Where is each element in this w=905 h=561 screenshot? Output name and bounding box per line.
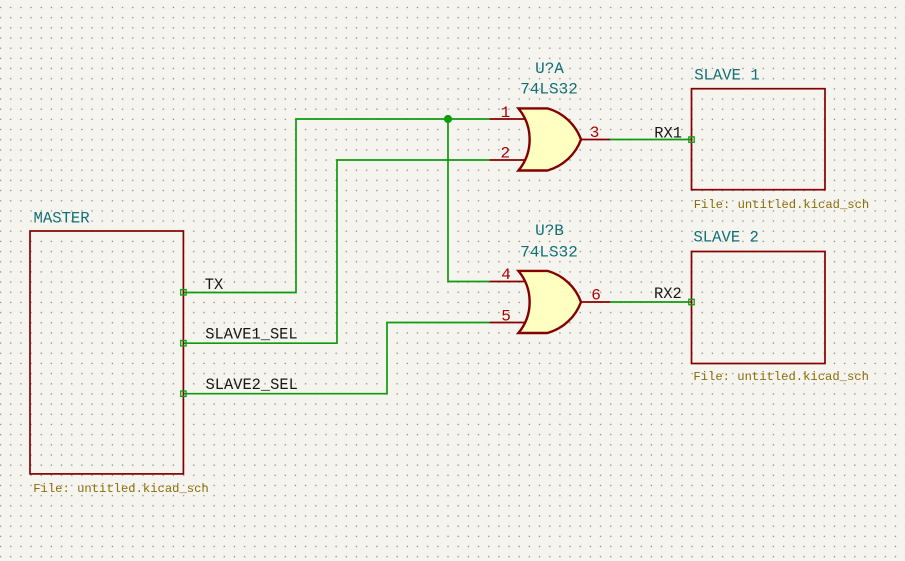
svg-text:SLAVE 2: SLAVE 2 bbox=[693, 229, 759, 247]
wire RX1 from U?A pin 3 to SLAVE 1 bbox=[610, 139, 692, 141]
svg-text:U?A: U?A bbox=[535, 60, 564, 78]
svg-text:TX: TX bbox=[205, 276, 223, 294]
wire TX from MASTER up to U?A pin 1 bbox=[183, 119, 489, 293]
pin 1 stub of U?A bbox=[490, 118, 526, 120]
pin 2 stub of U?A bbox=[490, 159, 526, 161]
svg-text:File: untitled.kicad_sch: File: untitled.kicad_sch bbox=[33, 482, 209, 496]
svg-text:3: 3 bbox=[590, 124, 600, 142]
svg-text:U?B: U?B bbox=[535, 222, 564, 240]
svg-text:2: 2 bbox=[500, 144, 510, 162]
svg-text:1: 1 bbox=[501, 104, 511, 122]
pin 5 stub of U?B bbox=[490, 322, 526, 324]
junction bbox=[444, 115, 452, 123]
pin 4 stub of U?B bbox=[490, 281, 526, 283]
svg-text:RX1: RX1 bbox=[654, 125, 682, 143]
sheet pin SLAVE2_SEL on MASTER bbox=[181, 391, 186, 396]
svg-text:File: untitled.kicad_sch: File: untitled.kicad_sch bbox=[694, 198, 870, 212]
wire branch from junction down to U?B pin 4 bbox=[448, 119, 490, 282]
svg-text:4: 4 bbox=[501, 266, 511, 284]
sheet pin SLAVE1_SEL on MASTER bbox=[181, 341, 186, 346]
sheet pin RX2 on SLAVE 2 bbox=[689, 299, 694, 304]
wire SLAVE2_SEL from MASTER to U?B pin 5 bbox=[183, 323, 489, 394]
svg-text:SLAVE2_SEL: SLAVE2_SEL bbox=[206, 376, 298, 394]
svg-text:RX2: RX2 bbox=[654, 285, 682, 303]
sheet SLAVE 2 bbox=[692, 252, 826, 364]
svg-text:SLAVE 1: SLAVE 1 bbox=[694, 67, 760, 85]
svg-text:File: untitled.kicad_sch: File: untitled.kicad_sch bbox=[693, 370, 869, 384]
svg-text:5: 5 bbox=[501, 308, 511, 326]
sheet SLAVE 1 bbox=[692, 89, 826, 190]
sheet pin RX1 on SLAVE 1 bbox=[689, 137, 694, 142]
svg-text:MASTER: MASTER bbox=[34, 209, 90, 227]
svg-text:74LS32: 74LS32 bbox=[520, 243, 578, 261]
sheet pin TX on MASTER bbox=[181, 290, 186, 295]
sheet MASTER bbox=[30, 231, 183, 474]
svg-text:SLAVE1_SEL: SLAVE1_SEL bbox=[205, 326, 297, 344]
OR gate U?A body bbox=[518, 108, 581, 170]
OR gate U?B body bbox=[518, 271, 581, 333]
svg-text:74LS32: 74LS32 bbox=[520, 81, 578, 99]
pin 3 stub of U?A bbox=[581, 139, 610, 141]
svg-text:6: 6 bbox=[591, 286, 601, 304]
wire RX2 from U?B pin 6 to SLAVE 2 bbox=[610, 301, 692, 303]
pin 6 stub of U?B bbox=[581, 301, 610, 303]
wire SLAVE1_SEL from MASTER to U?A pin 2 bbox=[183, 160, 489, 343]
